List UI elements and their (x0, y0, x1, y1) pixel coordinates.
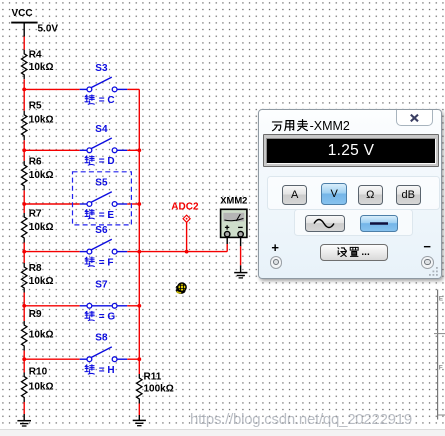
svg-text:10kΩ: 10kΩ (29, 115, 54, 126)
wire node F left (24, 251, 79, 253)
svg-text:S6: S6 (95, 225, 108, 236)
svg-text:= D: = D (99, 156, 115, 167)
multimeter dialog XMM2 (258, 109, 441, 279)
wire ADC2 stub (186, 222, 188, 251)
svg-text:= F: = F (99, 257, 114, 268)
panel row 1 (267, 176, 440, 211)
svg-text:S3: S3 (95, 63, 108, 74)
resistor R8 (22, 263, 54, 293)
svg-text:100kΩ: 100kΩ (144, 384, 174, 395)
wire node E right (127, 203, 139, 205)
wire node F bus to XMM2 (139, 251, 227, 253)
svg-text:F: F (439, 365, 443, 372)
svg-text:ADC2: ADC2 (171, 201, 199, 212)
wire R9 to node H (23, 351, 25, 360)
wire node E left (24, 203, 79, 205)
svg-text:XMM2: XMM2 (220, 195, 247, 206)
wire right bus to R11 (138, 89, 140, 374)
wire node H left (24, 358, 79, 360)
wire node C right (127, 88, 139, 90)
window bottom strip (0, 429, 445, 436)
svg-text:= G: = G (99, 312, 116, 323)
svg-text:-XMM2: -XMM2 (310, 119, 350, 133)
svg-text:= E: = E (99, 210, 115, 221)
wire node H right (127, 358, 139, 360)
resistor R7 (22, 209, 54, 243)
display 1.25 V (263, 134, 439, 168)
wire node G right (127, 305, 139, 307)
svg-text:R8: R8 (29, 263, 42, 274)
wire VCC to R4 (23, 23, 25, 37)
button DC (selected) (360, 215, 398, 232)
wire R10 to ground (23, 402, 25, 414)
resize grip (428, 266, 439, 277)
svg-text:S7: S7 (95, 279, 108, 290)
resistor R11 (137, 372, 174, 404)
wire node D left (24, 149, 79, 151)
junction bus-H (137, 357, 141, 361)
minus label (423, 239, 431, 254)
wire R6 to node E (23, 190, 25, 204)
junction bus-E (137, 202, 141, 206)
multimeter XMM2 icon (220, 195, 247, 238)
button Ohm (358, 185, 383, 204)
settings button (320, 244, 388, 260)
close button (396, 110, 433, 127)
svg-text:S5: S5 (95, 178, 108, 189)
resistor R9 (22, 309, 54, 350)
terminal minus (421, 256, 434, 269)
cursor icon (ball) (175, 283, 186, 294)
junction node H (22, 357, 26, 361)
wire R11 to ground (138, 404, 140, 416)
wire R5 to node D (23, 140, 25, 150)
ground (left chain) (17, 421, 31, 426)
svg-text:10kΩ: 10kΩ (29, 382, 54, 393)
power VCC 5.0V (11, 8, 58, 34)
button AC (sine) (305, 215, 345, 232)
wire XMM2 minus lead (240, 238, 242, 247)
watermark (190, 411, 412, 428)
junction node C (22, 88, 26, 92)
svg-text:10kΩ: 10kΩ (29, 329, 54, 340)
switch S5 (E) (80, 178, 128, 221)
svg-text:10kΩ: 10kΩ (29, 62, 54, 73)
junction ADC stub (185, 250, 189, 254)
svg-text:S4: S4 (95, 124, 108, 135)
ground (R11) (133, 420, 146, 425)
svg-text:R11: R11 (144, 372, 162, 383)
svg-text:R6: R6 (29, 157, 42, 168)
button A (282, 185, 307, 204)
wire node C left (24, 88, 79, 90)
resistor R5 (22, 101, 54, 141)
junction bus-G (137, 304, 141, 308)
terminal plus (270, 256, 283, 269)
dialog title (271, 118, 363, 133)
svg-text:10kΩ: 10kΩ (29, 276, 54, 287)
svg-text:R5: R5 (29, 101, 42, 112)
partial component at right edge (434, 290, 445, 420)
button V (selected) (321, 183, 347, 204)
junction node F (22, 250, 26, 254)
node ADC2 (off-page connector) (171, 201, 199, 222)
selection box (dashed) around S5 (73, 172, 132, 225)
wire R8 to node G (23, 293, 25, 306)
junction node E (22, 202, 26, 206)
svg-text:S8: S8 (95, 333, 108, 344)
button dB (396, 185, 421, 204)
switch S6 (F) (80, 225, 128, 268)
plus label (271, 240, 279, 255)
resistor R4 (22, 50, 54, 80)
svg-text:R10: R10 (29, 366, 48, 377)
svg-text:= C: = C (99, 95, 115, 106)
wire R7 to node F (23, 243, 25, 252)
svg-text:VCC: VCC (12, 8, 33, 19)
switch S8 (H) (80, 333, 128, 376)
resistor R6 (22, 157, 54, 191)
svg-text:E: E (439, 296, 444, 303)
switch S4 (D) (80, 124, 128, 167)
resistor R10 (22, 366, 54, 402)
wire node G left (24, 305, 79, 307)
switch S7 (G) (80, 279, 128, 322)
wire node D right (127, 149, 139, 151)
svg-text:10kΩ: 10kΩ (29, 222, 54, 233)
svg-text:R4: R4 (29, 50, 42, 61)
svg-text:R9: R9 (29, 309, 42, 320)
panel row 2 (294, 209, 413, 235)
svg-text:= H: = H (99, 365, 115, 376)
svg-text:R7: R7 (29, 209, 42, 220)
svg-text:10kΩ: 10kΩ (29, 170, 54, 181)
switch S3 (C) (80, 63, 128, 106)
junction node G (22, 304, 26, 308)
junction bus-D (137, 148, 141, 152)
junction node D (22, 148, 26, 152)
svg-text:...: ... (361, 247, 370, 258)
wire node F right (127, 251, 139, 253)
wire XMM2 plus lead (226, 244, 228, 252)
wire R4 to node C (23, 79, 25, 89)
junction bus-F (137, 250, 141, 254)
svg-text:5.0V: 5.0V (38, 24, 59, 35)
ground (XMM2) (234, 273, 247, 278)
